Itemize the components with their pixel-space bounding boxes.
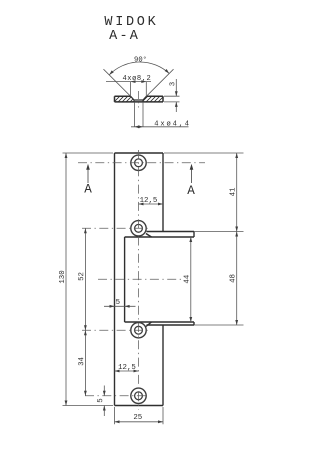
dim 52: [84, 228, 86, 330]
step bottom ext right: [194, 324, 244, 326]
extension lines: [63, 153, 244, 424]
dim 34: [84, 330, 86, 396]
svg-text:5: 5: [97, 398, 105, 402]
cutout bottom edge: [125, 321, 194, 323]
svg-text:25: 25: [133, 414, 142, 422]
dim 3 thickness: [164, 79, 180, 112]
hole 3: [131, 323, 146, 338]
section arrow left: [87, 166, 89, 183]
svg-text:34: 34: [78, 357, 86, 366]
hole 1: [131, 155, 146, 170]
hole 4: [131, 388, 146, 403]
top edge ext left to 130 dim: [63, 152, 114, 154]
dim 44: [190, 237, 192, 322]
dim 12,5 upper: [139, 203, 164, 205]
section trace line A-A through hole 1: [78, 162, 205, 164]
section arrow right: [191, 166, 193, 183]
left edge: [114, 153, 116, 406]
dim 12,5 lower: [115, 370, 139, 372]
svg-text:90°: 90°: [134, 55, 147, 64]
countersink angle V lines: [104, 69, 174, 96]
blend diagonal top: [146, 234, 152, 238]
bottom edge: [115, 405, 164, 407]
step bottom edge: [147, 324, 195, 326]
svg-text:44: 44: [184, 274, 192, 283]
bottom edge ext left to 130 dim: [63, 405, 114, 407]
svg-text:41: 41: [230, 187, 238, 196]
cutout horizontal centerline: [98, 278, 183, 280]
dim 41: [236, 153, 238, 232]
section bar plate: [115, 96, 164, 102]
svg-text:52: 52: [78, 272, 86, 281]
svg-text:4xø8,2: 4xø8,2: [122, 75, 151, 83]
plate outline: [115, 153, 195, 406]
dim 130: [65, 153, 67, 406]
right edge upper: [162, 153, 164, 232]
svg-text:130: 130: [59, 270, 67, 283]
top edge: [115, 152, 164, 154]
cutout left edge: [124, 237, 126, 322]
step top ext right: [194, 231, 244, 233]
dim 25: [115, 421, 164, 423]
dim 48: [236, 232, 238, 326]
svg-text:12,5: 12,5: [118, 364, 136, 372]
dim 4xd8,2: [106, 82, 151, 97]
cutout top edge: [125, 236, 194, 238]
svg-text:A-A: A-A: [109, 29, 140, 44]
vertical centerline through holes: [138, 150, 140, 410]
dim 5 notch: [104, 305, 136, 307]
right edge lower: [162, 325, 164, 406]
hole 4 horizontal centerline: [85, 395, 149, 397]
svg-text:4xø4,4: 4xø4,4: [154, 120, 191, 128]
step right bottom: [193, 322, 195, 325]
hole 2: [131, 221, 146, 236]
hatching: [110, 94, 174, 106]
top edge ext right to 41 dim: [164, 152, 244, 154]
bottom left ext for 25: [114, 407, 116, 424]
hole 3 horizontal centerline: [82, 329, 150, 331]
step top edge: [147, 231, 195, 233]
dim 5 bottom-left: [103, 386, 105, 417]
svg-text:12,5: 12,5: [140, 197, 158, 205]
svg-text:48: 48: [230, 274, 238, 283]
svg-text:5: 5: [116, 299, 120, 307]
hole 2 horizontal centerline: [82, 227, 150, 229]
section bar centerline: [138, 91, 140, 108]
step right top: [193, 232, 195, 238]
blend diagonal bottom: [146, 322, 152, 327]
svg-text:A: A: [84, 182, 92, 196]
countersink cone: [131, 96, 147, 102]
angle arc 90: [109, 62, 169, 75]
svg-text:A: A: [187, 184, 195, 198]
dim 4xd4,4: [131, 102, 189, 127]
svg-text:WIDOK: WIDOK: [104, 15, 158, 30]
svg-text:3: 3: [169, 82, 177, 86]
bottom right ext for 25: [162, 407, 164, 424]
